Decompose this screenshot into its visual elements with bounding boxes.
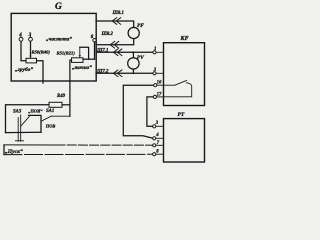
svg-text:3: 3 [155,121,159,126]
svg-text:Ш8.2: Ш8.2 [101,32,114,37]
KF pin17 stub [157,96,164,98]
wire KF pin17 to P1 pin3 [147,97,153,126]
switch blade [175,81,187,86]
KF box [164,43,205,106]
KF pin 16 terminal [154,84,157,87]
paper background [0,0,212,168]
KF pin 3 terminal [153,72,156,75]
voltmeter PV bottom lead [132,69,134,73]
Pusk button plunger lines [17,118,19,142]
switch SA3 blade [21,117,30,127]
R50 wiper arrow [30,54,32,58]
G pin 4 terminal [19,37,23,41]
wire R49 left to SA chain [6,105,50,133]
junction node PV bottom [132,72,134,74]
long wire Pusk to P1 pin8 [4,153,153,155]
svg-text:„точно“: „точно“ [72,65,92,71]
svg-text:17: 17 [157,92,162,97]
svg-text:SA3: SA3 [13,109,22,114]
svg-text:Ш7.1: Ш7.1 [96,49,108,54]
frequency meter PF [128,27,139,38]
pin 8 of G wire down [94,42,96,59]
wire pin3 down to R50 wiper [30,41,32,54]
Pusk button cap bar [15,140,23,142]
wire Sh8.2 from PF to G [96,39,134,45]
long wire Pusk to P1 pin7 [4,144,56,146]
svg-text:R50(R40): R50(R40) [32,50,51,55]
resistor R49 [49,102,62,107]
svg-text:16: 16 [157,81,162,86]
resistor R50 [26,58,37,63]
svg-text:1: 1 [154,47,156,52]
switch SA1 blade [41,116,52,121]
generator box G [11,13,96,81]
SA1 fixed contact line [52,115,70,117]
G pin 8 terminal [93,39,96,42]
P1 pin 7 terminal [153,144,156,147]
wire R49 right lead [62,104,70,106]
SA3 fixed contact line [29,115,41,132]
pin 4 arrow stem [20,36,22,38]
connector chevrons Sh8.1 [112,18,121,25]
svg-text:„Пуск“: „Пуск“ [5,149,23,155]
pin 3 arrow stem [30,36,32,38]
svg-text:4: 4 [18,33,22,38]
svg-text:Ш8.1: Ш8.1 [112,11,124,16]
connector chevrons Sh8.2 [110,42,119,49]
wire Sh7.1 from G to KF pin1 [96,51,153,53]
svg-text:„частота“: „частота“ [46,37,72,43]
svg-text:R49: R49 [57,94,66,99]
KF pin1 stub [156,51,163,53]
svg-text:„грубо“: „грубо“ [15,66,33,73]
KF pin3 stub [156,72,163,74]
svg-text:Ш7.2: Ш7.2 [96,69,109,74]
svg-text:4: 4 [155,133,159,138]
KF pin 1 terminal [153,51,156,54]
P1 pin 8 terminal [153,153,156,156]
G pin 3 terminal [29,37,33,41]
svg-text:R51(R21): R51(R21) [57,50,76,55]
svg-text:3: 3 [153,68,157,73]
P1 pin8 stub [156,153,164,155]
P1 pin3 stub [156,125,164,127]
P1 pin 3 terminal [153,125,156,128]
P1 pin 4 terminal [153,137,156,140]
voltmeter PV top lead [132,52,134,57]
wire R51 right to pin8 line [83,58,95,60]
P1 pin4 stub [156,137,164,139]
Pusk left closure [3,145,5,155]
wire R50 right lead down [37,61,44,83]
connector chevrons Sh7.1 [113,49,122,56]
svg-text:РF: РF [137,23,144,29]
resistor R51 [72,58,84,63]
svg-text:G: G [55,2,62,12]
switch fixed contact return to pin17 [164,83,192,97]
KF pin16 stub [157,84,164,86]
wire Sh7.2 from G to KF pin3 [96,72,153,74]
P1 pin7 stub [156,144,164,146]
svg-text:РТ: РТ [178,112,185,118]
wire Sh8.1 from G to PF [96,21,134,28]
connector chevrons Sh7.2 [113,70,122,77]
voltmeter PV [128,58,139,69]
R51 wiper arrow and loop [79,47,81,54]
svg-text:РV: РV [137,55,144,61]
wire pin4 down to R50 left [21,41,26,61]
svg-text:ПОВ: ПОВ [45,123,56,128]
bottom wire of SA chain [6,131,42,133]
junction node PV top [132,51,134,53]
svg-text:SA1: SA1 [46,109,54,114]
svg-text:„ПОИ“: „ПОИ“ [28,108,43,113]
KF pin 17 terminal [153,95,156,98]
P1 box [164,119,205,162]
wire KF pin16 to P1 pin4 [123,85,153,138]
wire R51 left lead down to R49 [70,60,72,116]
switch inside KF: common stub [164,84,175,86]
svg-text:3: 3 [28,33,32,38]
svg-text:КF: КF [180,36,189,42]
